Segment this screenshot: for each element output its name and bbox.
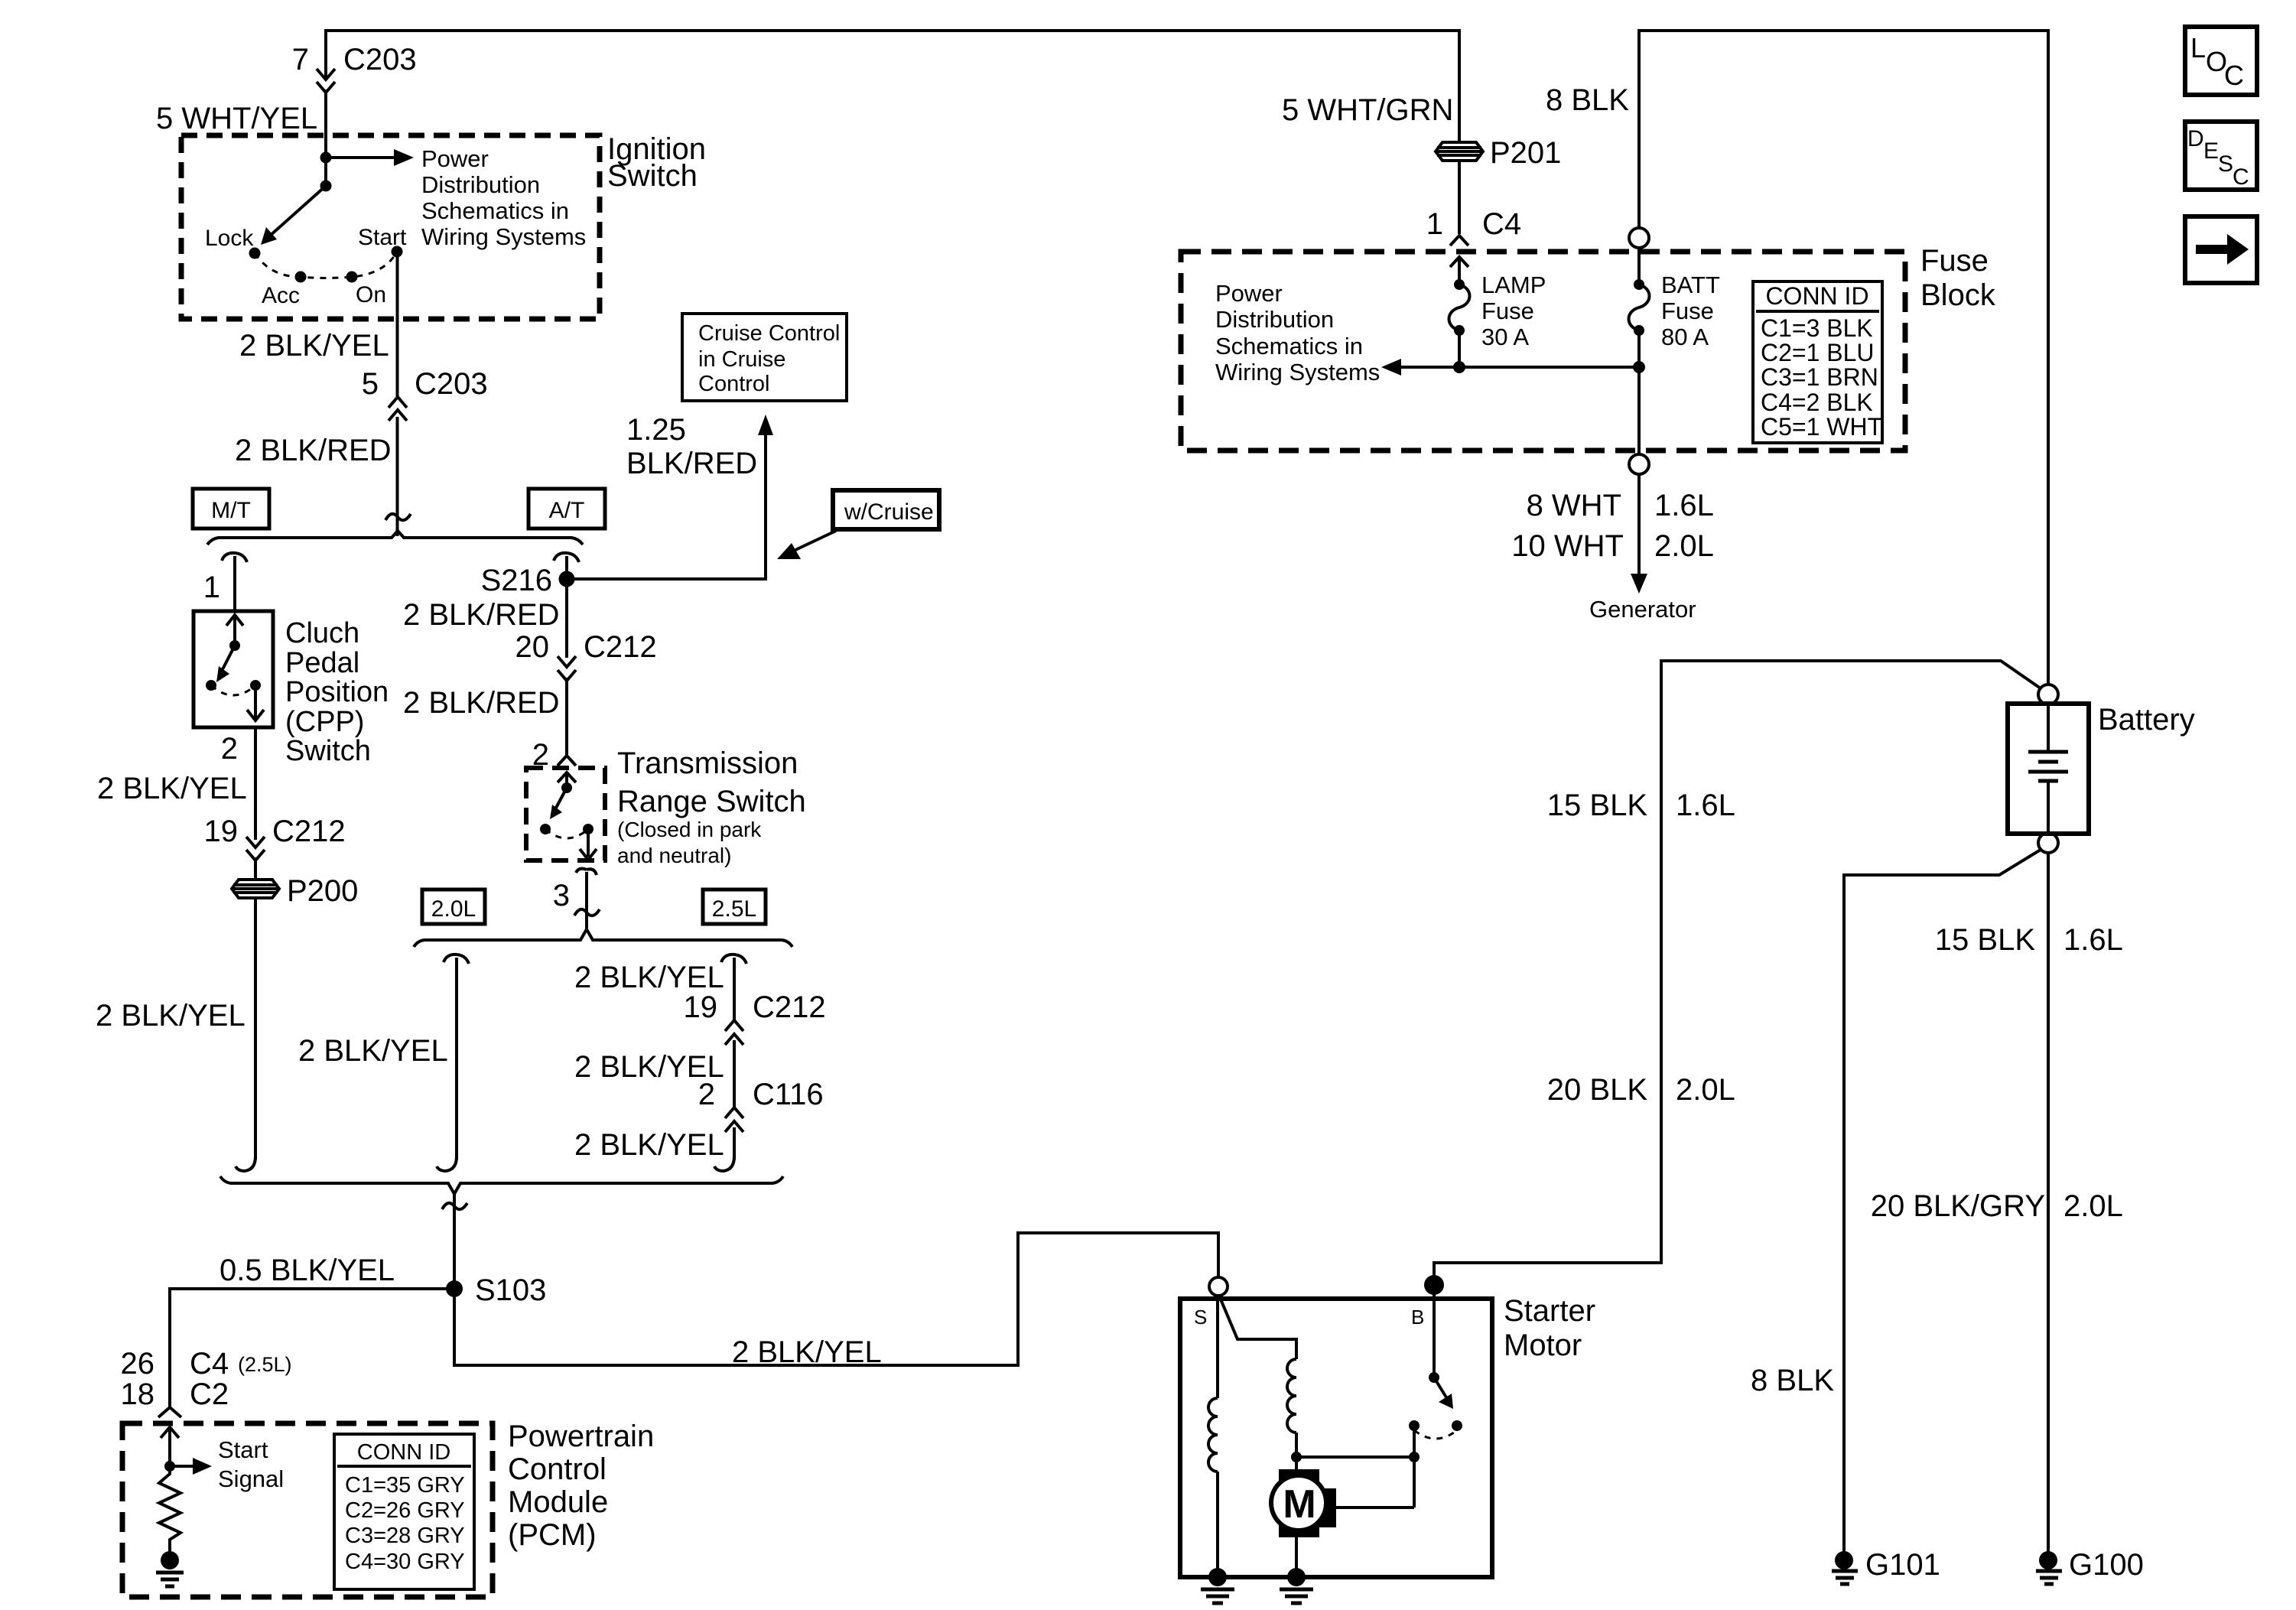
svg-text:On: On bbox=[356, 282, 386, 307]
wire: junction to switch column bbox=[1296, 1456, 1414, 1459]
DESC box bbox=[2185, 122, 2257, 190]
start signal arrow bbox=[170, 1465, 194, 1468]
svg-text:8 WHT: 8 WHT bbox=[1527, 489, 1621, 522]
node: contact junction bbox=[1409, 1452, 1420, 1462]
node S103 splice bbox=[446, 1280, 463, 1297]
hook: 2.5L branch end curl bbox=[714, 1156, 734, 1171]
powertrain control module dashed box bbox=[122, 1423, 493, 1597]
svg-text:Block: Block bbox=[1920, 278, 1996, 312]
connector C203 pin5 symbol bbox=[389, 397, 407, 421]
wire: motor to ground bbox=[1295, 1537, 1298, 1576]
svg-text:C212: C212 bbox=[584, 630, 657, 664]
svg-text:2.0L: 2.0L bbox=[1676, 1073, 1735, 1107]
ignition switch dashed box bbox=[181, 135, 600, 319]
TRS wiper arrow bbox=[555, 788, 567, 809]
contact: Lock bbox=[249, 248, 261, 259]
svg-text:2 BLK/YEL: 2 BLK/YEL bbox=[732, 1335, 882, 1369]
svg-text:M: M bbox=[1283, 1482, 1315, 1527]
svg-text:C4: C4 bbox=[190, 1347, 229, 1381]
brush right bbox=[1319, 1488, 1336, 1527]
svg-text:15 BLK: 15 BLK bbox=[1935, 923, 2036, 957]
svg-text:Wiring Systems: Wiring Systems bbox=[421, 223, 586, 250]
wire: lamp fuse to bus bbox=[1458, 330, 1461, 367]
hook: 2.0L branch end curl bbox=[437, 1156, 457, 1171]
node: lamp fuse bottom bbox=[1454, 325, 1465, 336]
splice squiggle on feed wire bbox=[385, 514, 411, 520]
svg-text:5: 5 bbox=[362, 367, 379, 401]
svg-text:C2=26 GRY: C2=26 GRY bbox=[345, 1498, 465, 1523]
2.5L option box bbox=[703, 890, 766, 924]
contact: Start bbox=[392, 246, 403, 258]
coil: hold-in winding bbox=[1208, 1398, 1218, 1472]
arrow box bbox=[2185, 216, 2257, 283]
CONN ID table (fuse block) bbox=[1753, 281, 1882, 443]
node: bus left bbox=[1453, 361, 1465, 373]
wire: C212 to P200 bbox=[254, 857, 257, 880]
CPP wiper arrow bbox=[222, 646, 235, 671]
svg-text:Control: Control bbox=[508, 1452, 607, 1486]
wire: battery negative to G100 bbox=[2047, 853, 2050, 1552]
svg-text:Control: Control bbox=[698, 372, 770, 396]
node: bus right bbox=[1633, 361, 1645, 373]
svg-text:Schematics in: Schematics in bbox=[1215, 333, 1363, 359]
node S216 splice bbox=[559, 571, 575, 587]
contact: CPP left bbox=[206, 680, 216, 691]
svg-text:S: S bbox=[1194, 1306, 1207, 1329]
cruise control destination box bbox=[682, 314, 847, 401]
wire: batt circle to fuse bbox=[1637, 248, 1641, 285]
svg-text:C2=1 BLU: C2=1 BLU bbox=[1761, 339, 1875, 366]
splice squiggle bbox=[574, 909, 600, 916]
svg-text:S103: S103 bbox=[475, 1273, 546, 1307]
svg-text:C212: C212 bbox=[753, 990, 826, 1024]
node: CPP pivot bbox=[229, 640, 240, 651]
wire: batt fuse to bus bbox=[1637, 330, 1641, 367]
svg-text:80 A: 80 A bbox=[1661, 324, 1709, 350]
wire: coil to junction bbox=[1295, 1433, 1298, 1470]
svg-text:C: C bbox=[2233, 164, 2249, 190]
svg-text:in Cruise: in Cruise bbox=[698, 347, 785, 372]
svg-text:2 BLK/YEL: 2 BLK/YEL bbox=[298, 1034, 448, 1068]
node: batt fuse top bbox=[1634, 279, 1644, 290]
wire: contact column bbox=[1413, 1426, 1416, 1508]
hook: 2.5L branch pigtail bbox=[721, 955, 746, 964]
merge brace to S103 bbox=[220, 1176, 783, 1194]
terminal S circle bbox=[1209, 1277, 1228, 1296]
wire: P200 down to split bbox=[254, 898, 257, 1160]
wire: branch to G101 bbox=[1844, 850, 2041, 1552]
wire: brace to S216 bbox=[565, 556, 568, 579]
M/T option box bbox=[193, 489, 269, 529]
svg-text:2: 2 bbox=[698, 1078, 715, 1111]
ground G101 bbox=[1835, 1551, 1853, 1569]
connector C212 pin19 symbol bbox=[246, 837, 265, 860]
svg-text:3: 3 bbox=[553, 879, 570, 912]
wire: S103 to starter S terminal bbox=[454, 1233, 1218, 1365]
wire: CPP to C212 pin19 bbox=[254, 727, 257, 840]
dashed detent arc Lock-Acc-On-Start bbox=[255, 252, 397, 278]
svg-text:and neutral): and neutral) bbox=[617, 844, 731, 867]
contact: switch left bbox=[1409, 1420, 1420, 1431]
svg-text:G101: G101 bbox=[1865, 1548, 1940, 1582]
svg-text:2 BLK/YEL: 2 BLK/YEL bbox=[96, 999, 246, 1033]
contact: switch right bbox=[1452, 1420, 1462, 1431]
wire: S216 to cruise riser bbox=[567, 577, 766, 581]
brush top bbox=[1279, 1469, 1319, 1486]
svg-text:1.6L: 1.6L bbox=[1676, 789, 1735, 822]
svg-text:19: 19 bbox=[684, 990, 718, 1024]
svg-text:5 WHT/YEL: 5 WHT/YEL bbox=[156, 102, 317, 135]
svg-text:(Closed in park: (Closed in park bbox=[617, 818, 762, 841]
battery cell plates bbox=[2028, 752, 2068, 781]
svg-text:Fuse: Fuse bbox=[1481, 298, 1534, 324]
svg-text:(PCM): (PCM) bbox=[508, 1518, 597, 1552]
TRS entry arrow bbox=[558, 772, 576, 788]
wire: 2.5L branch lower bbox=[733, 1127, 736, 1160]
2.0L option box bbox=[422, 890, 485, 924]
split brace M/T A/T bbox=[207, 531, 583, 545]
wire: to generator bbox=[1637, 474, 1641, 575]
wire: riser to cruise control arrow bbox=[764, 434, 767, 581]
TRS output arrow bbox=[580, 834, 597, 860]
svg-text:Distribution: Distribution bbox=[421, 171, 540, 198]
wire: hold-in to ground bbox=[1216, 1472, 1219, 1576]
fuse element BATT bbox=[1629, 285, 1650, 330]
svg-text:P200: P200 bbox=[287, 874, 358, 908]
LOC box bbox=[2185, 27, 2257, 95]
dashed arc CPP contacts bbox=[211, 685, 255, 695]
contact: TRS right bbox=[583, 824, 594, 834]
svg-text:C203: C203 bbox=[415, 367, 488, 401]
ground: PCM internal bbox=[161, 1551, 179, 1569]
wire: brace to S103 bbox=[453, 1192, 456, 1289]
svg-text:CONN ID: CONN ID bbox=[357, 1440, 450, 1465]
svg-text:C2: C2 bbox=[190, 1377, 229, 1411]
contact: On bbox=[346, 272, 358, 283]
wire: C203 pin5 to M/T-A/T split bbox=[396, 417, 399, 536]
svg-text:Cluch: Cluch bbox=[285, 617, 359, 649]
clutch pedal position switch box bbox=[194, 611, 273, 727]
svg-text:1: 1 bbox=[1426, 207, 1443, 241]
node: ignition feed junction bbox=[320, 152, 332, 164]
svg-text:B: B bbox=[1411, 1306, 1424, 1329]
resistor: PCM start signal pulldown bbox=[159, 1466, 180, 1553]
wire: B to switch blade bbox=[1433, 1285, 1436, 1377]
svg-text:Battery: Battery bbox=[2098, 703, 2195, 737]
wire: C212 pin20 to C212 pin2 bbox=[565, 678, 568, 756]
wire: P201 to C4 bbox=[1458, 161, 1461, 234]
svg-text:Signal: Signal bbox=[218, 1465, 284, 1492]
svg-text:Transmission: Transmission bbox=[617, 746, 798, 780]
svg-text:1.6L: 1.6L bbox=[2063, 923, 2123, 957]
svg-text:Cruise Control: Cruise Control bbox=[698, 321, 840, 346]
svg-text:Schematics in: Schematics in bbox=[421, 197, 569, 224]
battery internal leads bbox=[2047, 704, 2050, 833]
svg-text:Pedal: Pedal bbox=[285, 647, 359, 679]
svg-text:Start: Start bbox=[218, 1436, 268, 1463]
svg-text:Module: Module bbox=[508, 1485, 608, 1519]
svg-text:2.5L: 2.5L bbox=[712, 896, 756, 922]
connector C212 pin19 symbol bbox=[725, 1020, 743, 1045]
svg-text:20 BLK: 20 BLK bbox=[1547, 1073, 1648, 1107]
svg-text:C203: C203 bbox=[343, 43, 417, 76]
svg-text:Motor: Motor bbox=[1504, 1329, 1582, 1362]
PCM entry arrow bbox=[161, 1427, 179, 1466]
fuse element LAMP bbox=[1449, 285, 1470, 330]
svg-text:19: 19 bbox=[204, 815, 239, 848]
svg-text:Fuse: Fuse bbox=[1661, 298, 1714, 324]
svg-text:A/T: A/T bbox=[549, 498, 585, 523]
svg-text:LAMP: LAMP bbox=[1481, 272, 1546, 298]
connector chevron at TRS boundary bbox=[558, 756, 576, 766]
CONN ID table (PCM) bbox=[334, 1434, 474, 1589]
wire: S lead into solenoid bbox=[1219, 1296, 1296, 1359]
svg-text:BATT: BATT bbox=[1661, 272, 1720, 298]
svg-text:Acc: Acc bbox=[262, 283, 300, 308]
bus wire inside fuse block bbox=[1459, 366, 1639, 369]
node: batt fuse bottom bbox=[1634, 325, 1644, 336]
svg-text:20 BLK/GRY: 20 BLK/GRY bbox=[1871, 1189, 2045, 1223]
grommet P200 bbox=[232, 880, 279, 898]
svg-text:Starter: Starter bbox=[1504, 1294, 1595, 1328]
svg-text:C3=28 GRY: C3=28 GRY bbox=[345, 1524, 465, 1548]
svg-text:C212: C212 bbox=[272, 815, 346, 848]
wire: S216 down to C212 pin20 bbox=[565, 587, 568, 658]
node: lamp fuse top bbox=[1454, 279, 1465, 290]
svg-text:Start: Start bbox=[358, 225, 407, 250]
svg-text:C116: C116 bbox=[753, 1078, 824, 1111]
svg-text:2 BLK/RED: 2 BLK/RED bbox=[403, 686, 560, 720]
wire: from Start contact down to C203 pin5 bbox=[396, 257, 399, 396]
svg-text:Lock: Lock bbox=[205, 226, 254, 251]
svg-text:C5=1 WHT: C5=1 WHT bbox=[1761, 413, 1882, 441]
svg-text:Distribution: Distribution bbox=[1215, 306, 1334, 333]
starter motor box bbox=[1180, 1299, 1492, 1577]
dashed arc starter contacts bbox=[1414, 1430, 1457, 1439]
svg-text:1: 1 bbox=[203, 571, 220, 604]
svg-text:2.0L: 2.0L bbox=[2063, 1189, 2123, 1223]
svg-text:Switch: Switch bbox=[607, 159, 698, 193]
wire: 2.0L branch bbox=[455, 958, 458, 1160]
wire: S103 to PCM drop bbox=[170, 1289, 454, 1407]
svg-text:7: 7 bbox=[292, 43, 309, 76]
arrow: generator bbox=[1631, 574, 1647, 594]
svg-text:C3=1 BRN: C3=1 BRN bbox=[1761, 363, 1878, 391]
ground: starter motor bbox=[1287, 1568, 1306, 1586]
hook: M/T branch pigtail bbox=[222, 553, 247, 562]
wire: motor right lead bbox=[1336, 1506, 1414, 1509]
battery box bbox=[2008, 704, 2089, 834]
svg-text:E: E bbox=[2203, 138, 2219, 164]
wire: bus to generator circle bbox=[1637, 367, 1641, 454]
ignition wiper arrow toward Lock bbox=[269, 186, 326, 236]
wire: hold-in winding lead bbox=[1216, 1296, 1219, 1398]
w/Cruise tag box bbox=[833, 490, 939, 529]
CPP output arrow bbox=[247, 691, 264, 720]
hook: 2.0L branch pigtail bbox=[444, 955, 469, 964]
svg-text:8 BLK: 8 BLK bbox=[1546, 83, 1629, 117]
connector C116 pin2 symbol bbox=[725, 1107, 743, 1132]
connector chevron at PCM boundary bbox=[158, 1407, 181, 1417]
svg-text:8 BLK: 8 BLK bbox=[1751, 1364, 1834, 1397]
CPP entry arrow bbox=[226, 615, 243, 646]
wire: branch to starter feed bbox=[1434, 661, 2041, 1276]
svg-text:2: 2 bbox=[221, 732, 238, 766]
svg-text:0.5 BLK/YEL: 0.5 BLK/YEL bbox=[220, 1254, 395, 1287]
wire: ignition feed vertical above connector C203 bbox=[324, 29, 327, 77]
node: TRS pivot bbox=[561, 782, 572, 793]
svg-text:Fuse: Fuse bbox=[1920, 244, 1989, 278]
node: start signal tap bbox=[164, 1461, 175, 1472]
svg-text:C: C bbox=[2224, 60, 2244, 91]
arrow to power distribution note bbox=[1400, 366, 1459, 369]
svg-text:30 A: 30 A bbox=[1481, 324, 1529, 350]
wire: P201 drop bbox=[1458, 29, 1461, 143]
svg-text:2 BLK/YEL: 2 BLK/YEL bbox=[97, 772, 247, 805]
svg-text:Switch: Switch bbox=[285, 735, 371, 767]
wire: 2.5L branch middle bbox=[733, 1040, 736, 1108]
dashed arc TRS contacts bbox=[545, 829, 588, 838]
svg-text:G100: G100 bbox=[2069, 1548, 2144, 1582]
connector C212 pin20 symbol bbox=[558, 656, 576, 681]
A/T option box bbox=[528, 489, 605, 529]
arrow to power distribution note bbox=[326, 156, 395, 159]
fuse block entry arrow bbox=[1450, 257, 1468, 285]
svg-text:(2.5L): (2.5L) bbox=[238, 1353, 292, 1376]
ground: starter hold-in bbox=[1208, 1568, 1227, 1586]
fuse block dashed box bbox=[1181, 252, 1905, 450]
wire: top feed from ignition switch to P201 drop bbox=[326, 29, 1459, 32]
terminal: generator feed circle bbox=[1629, 454, 1649, 474]
hook: TRS output pigtail bbox=[576, 869, 597, 875]
svg-text:D: D bbox=[2187, 126, 2204, 151]
svg-text:S: S bbox=[2218, 151, 2233, 177]
svg-text:Generator: Generator bbox=[1589, 596, 1696, 623]
svg-text:C4=30 GRY: C4=30 GRY bbox=[345, 1550, 465, 1574]
wire: TRS to engine split bbox=[585, 872, 588, 930]
svg-text:2 BLK/RED: 2 BLK/RED bbox=[403, 598, 560, 632]
svg-text:L: L bbox=[2190, 32, 2206, 63]
terminal B dot bbox=[1424, 1275, 1444, 1295]
svg-text:10 WHT: 10 WHT bbox=[1511, 529, 1624, 563]
svg-text:Power: Power bbox=[1215, 280, 1283, 307]
svg-text:15 BLK: 15 BLK bbox=[1547, 789, 1648, 822]
svg-text:(CPP): (CPP) bbox=[285, 706, 364, 738]
grommet P201 bbox=[1436, 142, 1483, 161]
node: blade pivot bbox=[1429, 1372, 1439, 1383]
svg-text:2 BLK/YEL: 2 BLK/YEL bbox=[239, 329, 389, 363]
hook: wire end curl at brace bbox=[236, 1156, 255, 1171]
svg-text:P201: P201 bbox=[1490, 136, 1561, 170]
brush bottom bbox=[1279, 1521, 1319, 1537]
connector chevron at fuse block boundary bbox=[1450, 236, 1468, 246]
svg-text:S216: S216 bbox=[481, 564, 552, 597]
svg-text:20: 20 bbox=[515, 630, 550, 664]
svg-text:C4=2 BLK: C4=2 BLK bbox=[1761, 389, 1873, 416]
wire: into ignition switch bbox=[324, 89, 327, 186]
transmission range switch dashed box bbox=[526, 768, 605, 860]
svg-text:BLK/RED: BLK/RED bbox=[626, 447, 757, 480]
split brace 2.0L 2.5L bbox=[414, 929, 792, 947]
svg-text:w/Cruise: w/Cruise bbox=[844, 499, 934, 525]
svg-text:Power: Power bbox=[421, 145, 489, 172]
splice squiggle bbox=[442, 1203, 467, 1209]
svg-text:26: 26 bbox=[121, 1347, 155, 1381]
svg-text:1.6L: 1.6L bbox=[1654, 489, 1714, 522]
svg-text:2 BLK/RED: 2 BLK/RED bbox=[235, 434, 392, 467]
contact: Acc bbox=[295, 272, 307, 283]
node: solenoid junction bbox=[1291, 1452, 1302, 1462]
wire: brace to CPP switch bbox=[233, 556, 236, 613]
wire: 2.5L branch upper bbox=[733, 958, 736, 1021]
coil: pull-in winding bbox=[1287, 1359, 1296, 1433]
svg-text:2.0L: 2.0L bbox=[431, 896, 476, 922]
svg-text:CONN ID: CONN ID bbox=[1765, 282, 1868, 310]
motor M circle bbox=[1271, 1475, 1326, 1530]
contact: CPP right bbox=[250, 680, 261, 691]
w/Cruise pointer arrow bbox=[795, 531, 836, 550]
svg-text:C1=3 BLK: C1=3 BLK bbox=[1761, 314, 1873, 342]
svg-text:Powertrain: Powertrain bbox=[508, 1420, 654, 1453]
svg-text:Position: Position bbox=[285, 676, 389, 708]
node: wiper pivot bbox=[320, 181, 332, 192]
connector C203 pin7 symbol bbox=[317, 69, 335, 93]
svg-text:C1=35 GRY: C1=35 GRY bbox=[345, 1473, 465, 1498]
svg-text:2 BLK/YEL: 2 BLK/YEL bbox=[574, 1128, 724, 1162]
svg-text:Wiring Systems: Wiring Systems bbox=[1215, 359, 1380, 385]
svg-text:2 BLK/YEL: 2 BLK/YEL bbox=[574, 961, 724, 994]
svg-text:18: 18 bbox=[121, 1377, 155, 1411]
svg-text:1.25: 1.25 bbox=[626, 413, 686, 447]
terminal: batt feed circle bbox=[1629, 228, 1649, 248]
terminal: battery positive circle bbox=[2038, 685, 2058, 704]
hook: A/T branch pigtail bbox=[554, 553, 579, 562]
svg-text:Range Switch: Range Switch bbox=[617, 785, 806, 818]
wire: batt feed riser and top run to battery bbox=[1639, 31, 2048, 685]
ground G100 bbox=[2039, 1551, 2057, 1569]
terminal: battery negative circle bbox=[2038, 833, 2058, 853]
svg-text:2.0L: 2.0L bbox=[1654, 529, 1714, 563]
contact: TRS left bbox=[540, 824, 551, 834]
switch blade arrow bbox=[1434, 1377, 1446, 1397]
svg-text:C4: C4 bbox=[1482, 207, 1521, 241]
svg-text:M/T: M/T bbox=[211, 498, 251, 523]
svg-text:5 WHT/GRN: 5 WHT/GRN bbox=[1282, 93, 1453, 127]
